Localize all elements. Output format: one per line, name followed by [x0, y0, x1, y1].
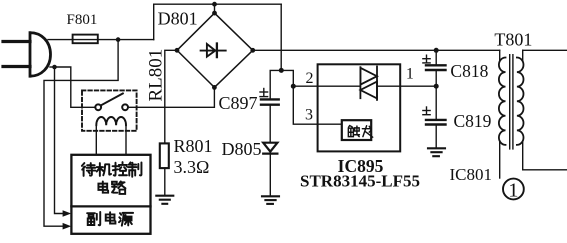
arrow into sub power lower: [63, 223, 72, 230]
diode D805: [263, 143, 277, 154]
wire vertical up to top rail: [153, 4, 155, 39]
rail to standby box upper arrow: [55, 67, 64, 214]
wire C818 top: [435, 50, 437, 64]
svg-text:F801: F801: [67, 12, 98, 28]
svg-text:C897: C897: [219, 93, 258, 113]
sub power text: [87, 212, 133, 226]
pin 2 wire: [293, 85, 317, 87]
wire secondary bottom to right edge: [523, 141, 567, 170]
triac symbol inside IC895: [360, 67, 377, 100]
capacitor C818: [426, 65, 446, 70]
svg-text:C818: C818: [450, 61, 488, 81]
wire C819 to ground: [435, 125, 437, 148]
label chufa trigger text: [348, 126, 372, 138]
bridge rectifier D801 diamond: [177, 13, 253, 87]
trigger box: [342, 120, 371, 140]
stub top rail to bridge top vertex: [214, 4, 216, 13]
relay blade: [101, 94, 123, 106]
relay coil lead right: [125, 125, 127, 155]
svg-text:1: 1: [406, 65, 414, 82]
junction dot fuse output: [116, 37, 121, 42]
svg-text:D805: D805: [222, 139, 262, 159]
wire bridge left vertex to R801: [165, 50, 177, 143]
resistor R801 body: [160, 143, 169, 168]
junction dot pin2 node: [291, 84, 296, 89]
AC plug top prong: [3, 40, 30, 43]
pin 2 internal wire: [318, 85, 361, 87]
wire C818 bottom to pin1 node: [435, 70, 437, 86]
ground under D805: [262, 196, 279, 204]
svg-text:2: 2: [306, 70, 314, 87]
relay RL801 dashed box: [82, 90, 137, 130]
wire junction to relay drop corner: [55, 67, 96, 107]
relay coil: [96, 117, 126, 125]
relay contact right: [122, 104, 128, 110]
pin 3 wire: [293, 86, 317, 124]
wire R801 to ground: [164, 168, 166, 195]
transformer T801 secondary winding: [517, 58, 524, 145]
ground under R801: [156, 196, 173, 204]
capacitor C897: [261, 99, 279, 104]
junction dot pin1 C818: [434, 84, 439, 89]
C897 polarity mark: [260, 89, 268, 97]
ground under C819: [428, 148, 445, 156]
pin 1 internal wire: [377, 85, 400, 87]
IC895 box: [318, 64, 401, 151]
svg-text:3.3Ω: 3.3Ω: [174, 157, 210, 177]
AC plug bottom prong: [3, 65, 30, 68]
relay contact left: [95, 104, 101, 110]
primary bottom lead: [499, 141, 501, 178]
svg-text:R801: R801: [174, 136, 213, 156]
C818 polarity mark: [423, 55, 430, 63]
svg-text:T801: T801: [494, 30, 532, 50]
AC plug P1 body: [30, 33, 51, 77]
wire node to C897 top: [270, 70, 281, 98]
top rail wire: [154, 3, 282, 5]
transformer T801 primary lead top: [499, 50, 501, 61]
wire node to pin2 corner: [281, 70, 293, 86]
fuse F801 body: [73, 35, 98, 44]
transformer T801 primary winding: [499, 58, 506, 145]
wire fuse to corner: [98, 39, 154, 41]
standby control circuit text line2: [98, 181, 125, 193]
wire relay right contact to bridge bottom: [128, 87, 215, 107]
pin 1 wire outside: [400, 85, 436, 87]
capacitor C819: [426, 120, 446, 125]
svg-text:D801: D801: [158, 9, 198, 29]
svg-text:IC801: IC801: [450, 165, 493, 184]
junction dot on top rail: [212, 2, 217, 7]
junction dot plug bottom: [52, 65, 57, 70]
arrow into sub power upper: [63, 210, 72, 217]
wire top rail down to C897 node: [280, 4, 282, 70]
standby control circuit text line1: [82, 162, 142, 177]
junction dot C818 top on DC rail: [434, 48, 439, 53]
main DC rail wire: [253, 49, 500, 51]
wire C897 to D805: [269, 105, 271, 143]
transformer T801 secondary lead top: [522, 50, 524, 61]
svg-text:STR83145-LF55: STR83145-LF55: [300, 172, 420, 191]
svg-text:C819: C819: [454, 111, 492, 131]
wire plug to fuse: [48, 39, 73, 41]
pin 3 internal wire to trigger box: [318, 123, 342, 125]
standby control box: [71, 155, 150, 234]
C819 polarity mark: [423, 107, 430, 115]
transformer core bars: [510, 55, 513, 149]
fuse-net drop wire: [44, 40, 118, 227]
bridge vertex dots: [175, 11, 256, 90]
junction dot node C897: [279, 68, 284, 73]
diode inside bridge D801: [201, 44, 226, 58]
standby box divider: [71, 205, 150, 207]
svg-text:3: 3: [305, 107, 313, 124]
relay coil lead left: [95, 125, 97, 155]
svg-text:1: 1: [508, 179, 518, 201]
wire secondary top to right edge: [523, 49, 567, 51]
wire D805 to ground: [269, 154, 271, 195]
svg-text:RL801: RL801: [146, 49, 167, 102]
wire pin1 node to C819: [435, 86, 437, 119]
terminal circle 1: [503, 179, 524, 200]
wire plug bottom to junction: [50, 66, 55, 68]
